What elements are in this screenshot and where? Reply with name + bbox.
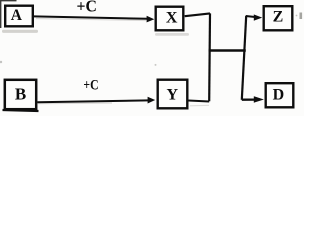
arrowhead into Y	[148, 97, 156, 104]
box Y	[158, 80, 188, 109]
page frame fragment top-left	[1, 1, 17, 28]
svg-text:Y: Y	[167, 86, 179, 103]
box Z	[264, 6, 293, 30]
wire X output	[185, 13, 210, 16]
wire crossbar	[209, 49, 246, 52]
wire Y output	[189, 101, 210, 102]
arrowhead into X	[147, 16, 155, 23]
svg-text:A: A	[11, 7, 23, 24]
svg-text:B: B	[15, 85, 26, 104]
svg-text:X: X	[166, 9, 178, 26]
box B	[3, 80, 39, 111]
wire B to Y shadow	[38, 102, 112, 105]
wire to Z	[246, 16, 255, 17]
svg-text:Z: Z	[273, 9, 284, 26]
wire A to X shadow	[36, 19, 146, 21]
noise dots right edge	[300, 13, 303, 20]
wire junction vertical right	[242, 16, 246, 100]
svg-text:+C: +C	[83, 77, 98, 93]
arrowhead into D	[254, 96, 264, 103]
box A	[5, 6, 33, 27]
box X	[156, 7, 184, 31]
svg-text:D: D	[273, 86, 285, 103]
smear under box A	[2, 30, 38, 33]
wire A to X	[34, 16, 148, 18]
box D	[266, 83, 294, 107]
svg-text:+C: +C	[77, 0, 97, 16]
smear right of Y box bottom	[190, 104, 209, 107]
smear under box X	[155, 33, 189, 36]
arrowhead into Z	[254, 14, 262, 20]
wire to D	[242, 98, 255, 100]
wire B to Y	[38, 100, 149, 102]
wire junction vertical left	[208, 13, 211, 101]
